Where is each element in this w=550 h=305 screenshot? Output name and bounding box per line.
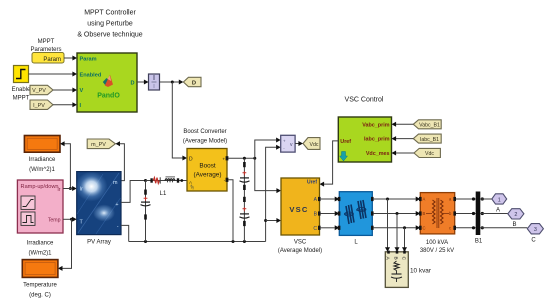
svg-text:Vdc: Vdc [310, 142, 319, 148]
wire load tap phase B [395, 214, 400, 252]
wire B1 to port 2 [480, 213, 508, 215]
source block Ramp-up/down (Irradiance/Temperature signals) [17, 180, 63, 233]
svg-text:Irradiance: Irradiance [27, 241, 54, 247]
svg-text:A: A [423, 197, 426, 202]
wire L to transformer phase B [374, 211, 421, 216]
port connector 2 (phase B) [508, 209, 524, 219]
annotation: MPPT Parameters label [30, 39, 61, 53]
svg-text:MPPT: MPPT [38, 39, 55, 45]
wire Boost - output to DC bottom rail [228, 180, 233, 242]
svg-text:Ir: Ir [80, 187, 83, 193]
svg-text:D: D [189, 156, 193, 162]
wire VSC phase C to L [321, 225, 340, 230]
wire load tap phase A [385, 199, 390, 252]
wire transformer to bus B1 phase A [456, 197, 476, 200]
svg-text:Vabc_prim: Vabc_prim [362, 122, 389, 128]
wire L to transformer phase C [374, 225, 421, 230]
goto tag m_PV [87, 139, 115, 149]
svg-text:+: + [115, 202, 118, 208]
svg-text:Param: Param [80, 56, 97, 62]
wire Enable to PandO [29, 72, 78, 77]
converter block Boost (Average) [187, 149, 228, 192]
svg-text:V: V [80, 88, 84, 94]
wire B1 to port 1 [480, 198, 492, 200]
wire B1 to port 3 [480, 227, 527, 229]
node PV DC+ junction [144, 179, 147, 182]
svg-text:(Average Model): (Average Model) [278, 248, 322, 254]
svg-text:B1: B1 [475, 239, 483, 245]
capacitor C3 (DC link lower) [240, 197, 250, 226]
svg-text:C: C [401, 257, 407, 261]
svg-text:Temp: Temp [48, 218, 61, 224]
wire PandO D output to rate transition [137, 80, 149, 85]
svg-text:Boost: Boost [199, 163, 216, 170]
goto tag Vdc [303, 138, 320, 150]
port connector 3 (phase C) [527, 224, 543, 234]
wire Uref from VSC Control to VSC [320, 141, 339, 187]
svg-text:100 kVA: 100 kVA [426, 240, 448, 246]
wire V_PV to PandO [53, 88, 77, 93]
wire PV m output to m_PV tag [115, 141, 124, 180]
wire Temp tap to Temperature display [58, 219, 72, 271]
constant block Param (MPPT parameters source) [32, 53, 64, 64]
svg-text:PandO: PandO [97, 93, 120, 100]
svg-text:B: B [423, 211, 426, 216]
from tag I_PV [30, 100, 53, 109]
annotation: Irradiance (W/m2)1 label under ramp block [27, 241, 54, 257]
from tag Vabc_B1 [413, 120, 441, 129]
wire Ramp Temp output to PV Array T input [63, 217, 77, 222]
svg-text:Ramp-up/down: Ramp-up/down [21, 184, 59, 190]
annotation: Boost Converter title [183, 129, 227, 145]
wire transformer to bus B1 phase B [456, 212, 476, 215]
svg-text:Boost Converter: Boost Converter [183, 129, 226, 135]
display block Temperature (deg. C) [22, 260, 58, 278]
from tag V_PV [30, 85, 53, 94]
svg-text:& Observe technique: & Observe technique [77, 32, 142, 39]
wire DC- to VSC - input [266, 218, 281, 223]
converter block VSC (Average Model) [281, 178, 321, 235]
svg-text:2: 2 [514, 212, 517, 218]
svg-text:MPPT Controller: MPPT Controller [84, 10, 136, 17]
wire Iabc_B1 to VSC Control [392, 136, 414, 141]
svg-text:3: 3 [534, 227, 537, 233]
capacitor C1 (PV input cap) [141, 181, 151, 242]
svg-text:MPPT: MPPT [13, 96, 30, 102]
svg-text:(W/m^2)1: (W/m^2)1 [29, 167, 55, 173]
wire VSC phase B to L [321, 211, 340, 216]
svg-text:L1: L1 [160, 191, 167, 197]
capacitor C2 (DC link upper) [240, 158, 250, 241]
load block 10 kvar [385, 251, 409, 288]
annotation: Temperature (deg. C) label [23, 283, 57, 299]
wire Ramp Ir output to PV Array Ir input [63, 186, 77, 191]
display block Irradiance (W/m^2)1 [24, 136, 60, 153]
svg-text:D: D [130, 80, 134, 86]
svg-text:(W/m2)1: (W/m2)1 [29, 251, 53, 257]
svg-text:I_PV: I_PV [33, 103, 45, 109]
svg-text:(Average): (Average) [194, 172, 222, 179]
svg-text:Param: Param [43, 57, 61, 63]
svg-text:(deg. C): (deg. C) [29, 293, 51, 299]
wire PV Array - to DC bottom rail [121, 225, 129, 241]
icon: MATLAB logo inside PandO [103, 75, 113, 87]
wire DC+ down to VSC + input [255, 158, 281, 193]
svg-text:m_PV: m_PV [91, 142, 106, 148]
svg-text:+: + [222, 157, 225, 162]
svg-text:10 kvar: 10 kvar [410, 268, 432, 275]
svg-text:C: C [313, 226, 317, 232]
svg-text:Vdc_mes: Vdc_mes [366, 151, 390, 157]
svg-text:Vabc_B1: Vabc_B1 [419, 123, 440, 129]
svg-text:380V / 25 kV: 380V / 25 kV [420, 248, 454, 254]
svg-text:Vdc: Vdc [425, 151, 434, 157]
wire I_PV to PandO [53, 102, 77, 107]
wire transformer to bus B1 phase C [456, 226, 476, 229]
svg-text:D: D [192, 80, 196, 86]
svg-text:Irradiance: Irradiance [29, 157, 56, 163]
wire Vdc tag to VSC Control [392, 151, 415, 156]
goto tag D [183, 77, 201, 86]
bus bar B1 [476, 192, 484, 236]
svg-text:V_PV: V_PV [32, 88, 46, 94]
wire PV Array + to DC top rail [121, 181, 146, 203]
wire DC- to V measurement - input [264, 145, 281, 242]
annotation: VSC (Average Model) label [278, 240, 322, 255]
svg-text:Uref: Uref [307, 180, 317, 186]
from tag Vdc (to controller) [414, 148, 440, 157]
svg-text:-: - [117, 224, 119, 230]
transformer block 100 kVA 380V/25kV [419, 193, 456, 234]
port connector 1 (phase A) [492, 194, 507, 204]
svg-text:+: + [283, 138, 286, 143]
wire Param to PandO [64, 56, 77, 61]
from tag Iabc_B1 [413, 134, 441, 143]
svg-text:(Average Model): (Average Model) [183, 139, 227, 145]
controller block VSC Control [338, 117, 391, 162]
wire rate transition to goto D and down to Boost [160, 80, 188, 161]
svg-text:Iabc_B1: Iabc_B1 [420, 137, 439, 143]
rate transition block [149, 74, 160, 90]
svg-text:VSC Control: VSC Control [345, 97, 384, 104]
voltage measurement block Vdc [281, 135, 295, 152]
wire Vabc_B1 to VSC Control [392, 122, 414, 127]
svg-text:Iabc_prim: Iabc_prim [364, 137, 390, 143]
wire DC bottom rail [129, 240, 266, 243]
wire VSC phase A to L [321, 197, 340, 202]
svg-text:PV Array: PV Array [87, 240, 111, 246]
svg-text:using Perturbe: using Perturbe [87, 21, 133, 28]
svg-text:m: m [113, 180, 118, 186]
annotation: Enable MPPT label [12, 87, 31, 102]
annotation: MPPT Controller title [77, 10, 142, 39]
MATLAB function block PandO U1 [77, 53, 137, 112]
svg-text:C: C [423, 226, 426, 231]
svg-text:B: B [512, 222, 516, 228]
wire L1 rail segment [146, 180, 188, 182]
svg-text:Enabled: Enabled [80, 72, 102, 78]
svg-text:B: B [393, 257, 399, 260]
source block Enable MPPT (step) [14, 66, 29, 83]
svg-text:Temperature: Temperature [23, 283, 57, 289]
svg-text:VSC: VSC [294, 240, 307, 246]
svg-text:VSC: VSC [289, 205, 308, 214]
annotation: 100 kVA 380V / 25 kV label [420, 240, 454, 254]
wire load tap phase C [402, 228, 407, 252]
three-phase inductor block L [338, 192, 374, 236]
wire Boost + output rail (DC+) [228, 157, 256, 160]
svg-text:c: c [449, 226, 451, 231]
svg-text:C: C [531, 238, 536, 244]
svg-text:1: 1 [498, 197, 501, 203]
block PV Array [76, 172, 122, 235]
svg-text:Ir: Ir [57, 187, 60, 193]
wire DC+ to V measurement + input [255, 138, 281, 159]
svg-text:Uref: Uref [340, 139, 351, 145]
svg-text:A: A [496, 208, 500, 214]
svg-text:Enable: Enable [12, 87, 31, 93]
inductor L1 (with series R) [150, 177, 183, 184]
annotation: Irradiance (W/m^2)1 label [29, 157, 56, 173]
wire Ir tap to Irradiance display [60, 141, 72, 190]
wire L to transformer phase A [374, 197, 421, 202]
wire V measurement output to Vdc goto [295, 141, 303, 146]
